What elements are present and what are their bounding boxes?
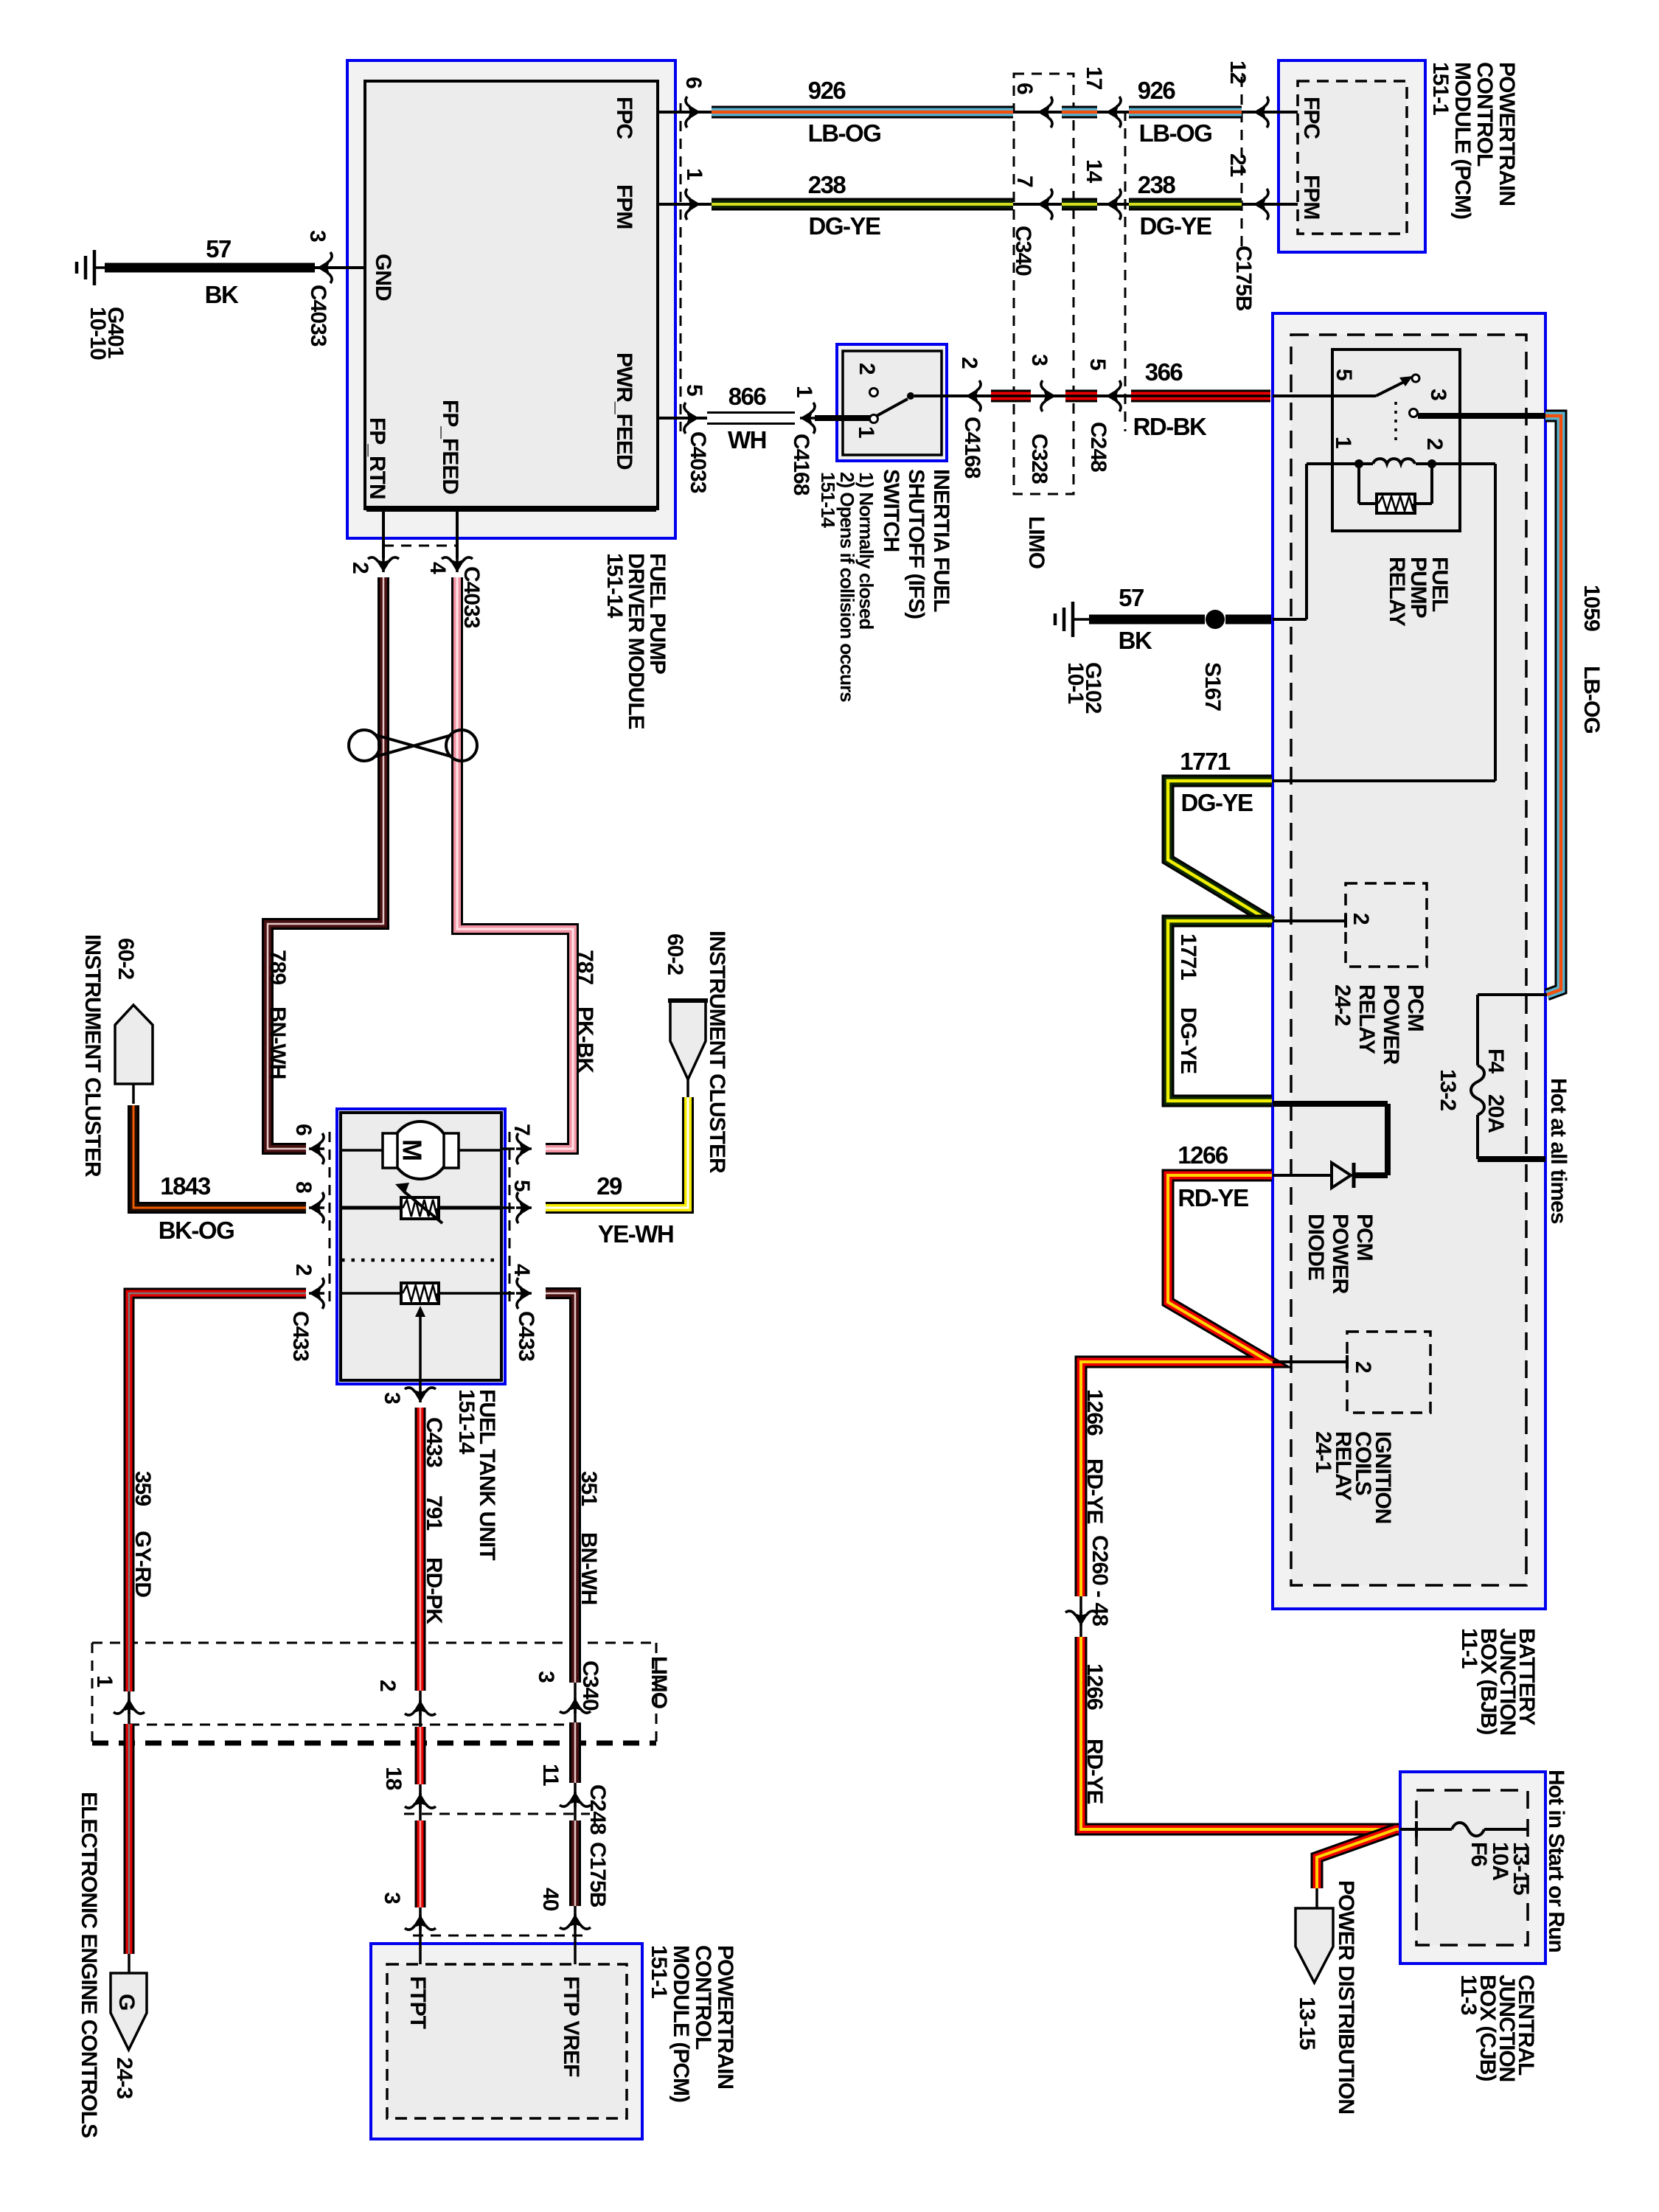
svg-text:LIMO: LIMO (647, 1656, 671, 1709)
C248 pin 17 arrow (1106, 97, 1121, 128)
svg-text:C433: C433 (514, 1311, 538, 1361)
svg-text:12: 12 (1225, 60, 1250, 84)
C4168 pin 2 arrow (966, 380, 981, 411)
svg-text:40: 40 (538, 1888, 563, 1911)
C175B pin 12 arrow (1253, 97, 1269, 128)
svg-text:C260 - 48: C260 - 48 (1088, 1535, 1112, 1626)
PCM power relay dashed box (1346, 883, 1427, 967)
wire 789 BN-WH (268, 577, 383, 1149)
PCM bottom box (371, 1944, 642, 2139)
svg-text:24-3: 24-3 (112, 2057, 136, 2098)
LIMO dashed box bottom (92, 1642, 656, 1644)
svg-text:21: 21 (1225, 153, 1250, 177)
svg-text:C4033: C4033 (686, 431, 710, 493)
svg-text:1: 1 (792, 386, 816, 397)
svg-text:C340: C340 (1011, 226, 1035, 276)
C175B pin 3 arrow (405, 1915, 436, 1930)
svg-text:WH: WH (728, 426, 766, 453)
svg-text:C328: C328 (1027, 434, 1051, 484)
svg-text:1: 1 (854, 426, 878, 438)
svg-text:6: 6 (681, 77, 706, 88)
svg-text:C340: C340 (578, 1660, 602, 1711)
svg-text:F4: F4 (1484, 1048, 1508, 1074)
powertrain control module (PCM) top box (1279, 60, 1425, 252)
svg-text:1059: 1059 (1579, 585, 1604, 631)
twisted pair symbol (349, 730, 477, 761)
connector C4033 bottom dashed link (383, 545, 457, 547)
fuel pump driver module box (FPDM) (347, 60, 675, 538)
svg-text:787: 787 (573, 950, 597, 984)
electronic engine controls connector G (111, 1973, 147, 2050)
FP_RTN pin wire (382, 509, 385, 558)
relay pin 3 output line (1418, 413, 1545, 419)
connector C248 dashed line (1124, 111, 1127, 431)
wire 238 DG-YE FPM net baseline (658, 203, 1298, 206)
svg-text:BK-OG: BK-OG (159, 1217, 234, 1244)
C4033 pin 5 arrow (684, 403, 699, 434)
IFS switch arm (877, 399, 908, 416)
wire 351 baseline C340 (574, 1683, 577, 1725)
relay pin 2 to 1771 (1432, 462, 1495, 465)
wire 359 GY-RD (129, 1293, 306, 1691)
wire 359 GY-RD lower (124, 1724, 135, 1954)
svg-text:DG-YE: DG-YE (1139, 212, 1211, 240)
C248 pin 11 arrow (560, 1792, 591, 1807)
wire 866 WH (707, 411, 795, 425)
svg-text:DG-YE: DG-YE (1176, 1007, 1200, 1074)
svg-text:FTP VREF: FTP VREF (559, 1976, 583, 2077)
svg-text:926: 926 (808, 77, 846, 104)
wire 351 segment C248-C175B (569, 1820, 581, 1906)
svg-text:1771: 1771 (1180, 748, 1231, 775)
svg-text:5: 5 (1085, 358, 1110, 370)
svg-text:LB-OG: LB-OG (808, 119, 881, 147)
wire 1266 branch to power distribution (1317, 1829, 1396, 1888)
splice S167 (1206, 610, 1225, 629)
wire 359 baseline at C340 (128, 1691, 131, 1725)
svg-text:FP_FEED: FP_FEED (438, 400, 462, 494)
C248 pin 14 arrow (1106, 189, 1121, 220)
svg-text:G40110-10: G40110-10 (86, 307, 128, 360)
svg-text:C4168: C4168 (960, 417, 984, 479)
svg-text:18: 18 (381, 1767, 406, 1790)
svg-text:RD-PK: RD-PK (422, 1557, 446, 1624)
C433 pin 3 arrow bottom (405, 1387, 436, 1402)
fuse F4 feed lines (1478, 993, 1547, 996)
battery junction box (BJB) (1273, 313, 1545, 1609)
IFS switch contact 2 circle (870, 389, 878, 397)
svg-text:PK-BK: PK-BK (573, 1006, 597, 1074)
wire 926 LB-OG FPC net baseline (658, 111, 1298, 114)
wire 1771 DG-YE upper (1168, 781, 1272, 922)
wire 926 LB-OG jumper in LIMO (1062, 106, 1097, 119)
fuel pump relay box (1332, 349, 1460, 531)
LIMO dashed box top (1014, 74, 1074, 494)
C4033 pin 3 arrow (317, 252, 333, 283)
svg-text:C4033: C4033 (306, 285, 330, 347)
fuse F6 (1452, 1823, 1484, 1836)
svg-text:C248: C248 (1086, 422, 1110, 472)
C175B pin 40 arrow (560, 1914, 591, 1930)
svg-text:29: 29 (597, 1172, 622, 1200)
svg-text:2: 2 (348, 562, 372, 574)
svg-text:5: 5 (682, 384, 706, 396)
C4033 pin 4 arrow bottom (442, 557, 473, 572)
PCM power relay pin 2 wire (1273, 919, 1346, 922)
instrument cluster right connector (670, 1001, 706, 1079)
svg-text:RD-BK: RD-BK (1133, 413, 1207, 440)
svg-text:6: 6 (291, 1124, 316, 1135)
svg-text:1266: 1266 (1082, 1389, 1107, 1436)
C340 pin 1 arrow (114, 1699, 145, 1714)
svg-text:791: 791 (422, 1495, 446, 1530)
svg-text:2: 2 (1349, 913, 1373, 925)
central junction box (CJB) (1400, 1772, 1545, 1964)
inertia fuel shutoff switch box (837, 344, 947, 461)
svg-text:POWER DISTRIBUTION: POWER DISTRIBUTION (1334, 1880, 1358, 2114)
svg-text:60-2: 60-2 (114, 938, 138, 979)
svg-text:3: 3 (1027, 354, 1051, 366)
svg-text:1: 1 (1331, 437, 1355, 448)
wire 1059 LB-OG (1545, 416, 1561, 995)
svg-text:FP_RTN: FP_RTN (365, 417, 389, 499)
connector C433 dashed left (329, 1132, 331, 1307)
svg-text:5: 5 (1332, 369, 1356, 380)
svg-text:S167: S167 (1200, 662, 1225, 711)
wire 366 RD-BK main (1131, 390, 1270, 403)
fuel tank unit box (337, 1109, 505, 1384)
svg-text:LIMO: LIMO (1024, 516, 1048, 569)
wire 787 PK-BK (457, 577, 573, 1149)
svg-text:INSTRUMENT CLUSTER: INSTRUMENT CLUSTER (705, 931, 729, 1174)
C248 pin 18 arrow (405, 1793, 436, 1809)
svg-text:DG-YE: DG-YE (808, 212, 880, 240)
wire 57 BK right b (1225, 615, 1271, 625)
dotted separator (341, 1259, 495, 1262)
svg-text:5: 5 (509, 1180, 534, 1192)
svg-text:11: 11 (538, 1764, 563, 1786)
C175B pin 21 arrow (1253, 189, 1269, 220)
connector C340 bottom inner dashed (129, 1724, 575, 1726)
C4168 pin 1 arrow (800, 403, 815, 434)
svg-text:RD-YE: RD-YE (1082, 1458, 1107, 1523)
svg-text:7: 7 (1012, 175, 1037, 187)
wire 926 LB-OG segment 2 (1129, 106, 1242, 119)
wire 29 YE-WH (546, 1097, 688, 1208)
C260-48 connector (1079, 1596, 1082, 1638)
svg-text:359: 359 (131, 1471, 155, 1506)
svg-text:2: 2 (291, 1264, 316, 1276)
svg-text:926: 926 (1138, 77, 1176, 104)
relay pin 3 contact (1410, 409, 1418, 417)
wire 866 WH PWR_FEED baseline (658, 417, 707, 420)
fuel tank pin 2 arrow (309, 1278, 324, 1309)
wire 791 segment C248-C175B (415, 1820, 426, 1907)
svg-text:DG-YE: DG-YE (1180, 789, 1253, 816)
fuel tank pin 4 arrow (516, 1278, 532, 1309)
ground G401 (93, 250, 97, 285)
wire 366 RD-BK baseline (985, 394, 1131, 397)
svg-text:BN-WH: BN-WH (265, 1006, 290, 1079)
connector C4033 dashed line (680, 103, 682, 431)
instrument cluster left connector (115, 1005, 153, 1084)
svg-text:Hot in Start or Run: Hot in Start or Run (1544, 1770, 1568, 1952)
svg-text:Hot at all times: Hot at all times (1546, 1078, 1571, 1224)
connector C433 dashed right (509, 1132, 511, 1307)
svg-text:C175B: C175B (1231, 246, 1256, 311)
svg-text:3: 3 (380, 1892, 404, 1904)
svg-text:2: 2 (1422, 438, 1447, 450)
svg-text:C4168: C4168 (789, 434, 813, 495)
IFS switch contact 1 circle (870, 415, 878, 423)
connector C175B dashed line (1241, 77, 1243, 251)
svg-text:366: 366 (1145, 358, 1183, 386)
svg-text:PWR_FEED: PWR_FEED (612, 352, 636, 470)
svg-text:ELECTRONIC ENGINE CONTROLS: ELECTRONIC ENGINE CONTROLS (77, 1792, 101, 2138)
C4033 pin 6 arrow (685, 97, 700, 128)
C248 pin 5 arrow (1106, 380, 1121, 411)
svg-text:C433: C433 (288, 1311, 313, 1361)
svg-text:BK: BK (205, 281, 239, 308)
svg-text:C248: C248 (585, 1784, 610, 1834)
svg-text:3: 3 (534, 1671, 558, 1683)
wire 57 BK to G401 (105, 263, 315, 273)
fuel tank pin 7 arrow (516, 1133, 532, 1164)
svg-text:LB-OG: LB-OG (1579, 666, 1604, 734)
svg-text:1771: 1771 (1176, 933, 1200, 980)
relay pin 5 wire from 366 (1273, 394, 1376, 397)
svg-text:1843: 1843 (160, 1172, 211, 1200)
PCM power diode wiring (1273, 1101, 1388, 1107)
svg-text:FPC: FPC (1299, 97, 1324, 139)
svg-text:351: 351 (577, 1471, 601, 1506)
relay switch arm (1376, 381, 1405, 396)
sensor wiper (415, 1306, 425, 1317)
svg-text:GND: GND (371, 254, 395, 301)
C4033 pin 1 arrow (685, 189, 700, 220)
svg-text:866: 866 (728, 383, 767, 410)
FP_FEED pin wire (456, 509, 459, 558)
svg-text:FTPT: FTPT (406, 1976, 430, 2029)
svg-text:6: 6 (1012, 83, 1037, 94)
svg-text:1266: 1266 (1082, 1663, 1107, 1710)
ignition coils relay pin 2 wire (1273, 1360, 1347, 1363)
svg-text:14: 14 (1082, 159, 1106, 184)
ground G102 (1071, 602, 1075, 637)
wire 791 segment C340-C248 (415, 1727, 426, 1784)
C328 pin 3 arrow (1040, 380, 1056, 411)
ignition coils relay dashed box (1347, 1332, 1430, 1413)
wire 351 BN-WH (546, 1293, 575, 1683)
wire 366 RD-BK jumper (1065, 390, 1097, 403)
svg-text:3: 3 (380, 1392, 404, 1404)
svg-text:BK: BK (1119, 627, 1152, 654)
power distribution connector (1295, 1908, 1333, 1983)
fuel tank pin 8 arrow (309, 1192, 324, 1223)
fuel tank pressure sensor resistor (341, 1292, 501, 1295)
CJB fuse F6 wiring (1400, 1828, 1452, 1831)
svg-text:4: 4 (509, 1264, 534, 1276)
svg-text:3: 3 (1426, 389, 1450, 400)
wire 1771 DG-YE lower (1168, 921, 1272, 1101)
svg-text:20A: 20A (1484, 1094, 1508, 1133)
C340 pin 2 arrow (405, 1700, 436, 1716)
svg-text:57: 57 (206, 235, 231, 262)
svg-text:13-2: 13-2 (1436, 1069, 1460, 1110)
relay dotted link (1394, 402, 1397, 446)
svg-text:238: 238 (1138, 171, 1176, 198)
wire 1266 RD-YE lower (1081, 1637, 1399, 1829)
svg-text:GY-RD: GY-RD (131, 1531, 155, 1597)
svg-text:RD-YE: RD-YE (1082, 1739, 1107, 1804)
svg-text:13-15: 13-15 (1509, 1842, 1533, 1895)
fuel tank pin 5 arrow (516, 1192, 532, 1223)
svg-text:2: 2 (957, 357, 981, 369)
wire 351 segment C340-C248 (569, 1722, 581, 1783)
wire 1843 BK-OG (133, 1105, 306, 1208)
svg-text:FPM: FPM (612, 184, 636, 229)
PCM power diode (1332, 1163, 1351, 1188)
svg-text:M: M (397, 1139, 428, 1161)
C4033 pin 2 arrow bottom (368, 557, 399, 572)
wire 57 BK right (1089, 615, 1205, 625)
svg-text:3: 3 (305, 230, 330, 242)
C340 pin 3 arrow (560, 1698, 591, 1714)
relay shunt resistor (1357, 464, 1360, 504)
relay pin 1 to ground net (1307, 462, 1359, 465)
wire 791 baseline C340 (419, 1691, 422, 1728)
svg-text:17: 17 (1082, 66, 1106, 90)
svg-text:FPC: FPC (612, 97, 636, 139)
connector C175B bottom dashed (413, 1935, 582, 1937)
wire into IFS switch (815, 415, 872, 421)
svg-text:2: 2 (1351, 1361, 1375, 1373)
svg-text:LB-OG: LB-OG (1139, 119, 1212, 147)
wire 238 DG-YE segment 1 (712, 198, 1013, 211)
svg-text:13-15: 13-15 (1295, 1997, 1319, 2050)
svg-text:C175B: C175B (585, 1842, 610, 1907)
svg-text:789: 789 (265, 950, 290, 984)
IFS output wire pin 2 (914, 394, 985, 397)
fuse F4 (1471, 1065, 1484, 1115)
svg-text:57: 57 (1119, 584, 1144, 611)
C340 pin 6 arrow (1037, 97, 1053, 128)
svg-text:FPM: FPM (1299, 175, 1324, 219)
svg-text:1266: 1266 (1178, 1141, 1228, 1169)
svg-text:1: 1 (682, 168, 706, 180)
connector C248 bottom dashed (404, 1813, 590, 1815)
svg-text:8: 8 (291, 1181, 316, 1193)
wire 238 DG-YE jumper in LIMO (1062, 198, 1097, 211)
svg-text:2: 2 (375, 1680, 400, 1691)
wire 1266 RD-YE upper (1081, 1175, 1272, 1596)
svg-text:G: G (114, 1994, 139, 2011)
svg-text:1: 1 (92, 1675, 116, 1687)
svg-text:238: 238 (808, 171, 846, 198)
wire 926 LB-OG segment 1 (712, 106, 1013, 119)
fuel tank pin 6 arrow (309, 1133, 324, 1164)
svg-text:YE-WH: YE-WH (598, 1220, 674, 1248)
svg-text:F6: F6 (1467, 1842, 1491, 1866)
wire 366 RD-BK segment a (991, 390, 1031, 403)
svg-text:RD-YE: RD-YE (1178, 1184, 1248, 1211)
wire 791 RD-PK (415, 1408, 426, 1691)
svg-text:7: 7 (509, 1124, 534, 1135)
svg-text:60-2: 60-2 (663, 933, 687, 975)
wire 238 DG-YE segment 2 (1129, 198, 1242, 211)
svg-text:2: 2 (855, 363, 879, 375)
svg-text:INSTRUMENT CLUSTER: INSTRUMENT CLUSTER (80, 934, 105, 1178)
C340 pin 7 arrow (1037, 189, 1053, 220)
fuel pump motor M (341, 1149, 501, 1152)
fuel level sender variable resistor (341, 1206, 501, 1210)
svg-text:4: 4 (425, 562, 450, 574)
svg-text:BN-WH: BN-WH (577, 1532, 601, 1604)
